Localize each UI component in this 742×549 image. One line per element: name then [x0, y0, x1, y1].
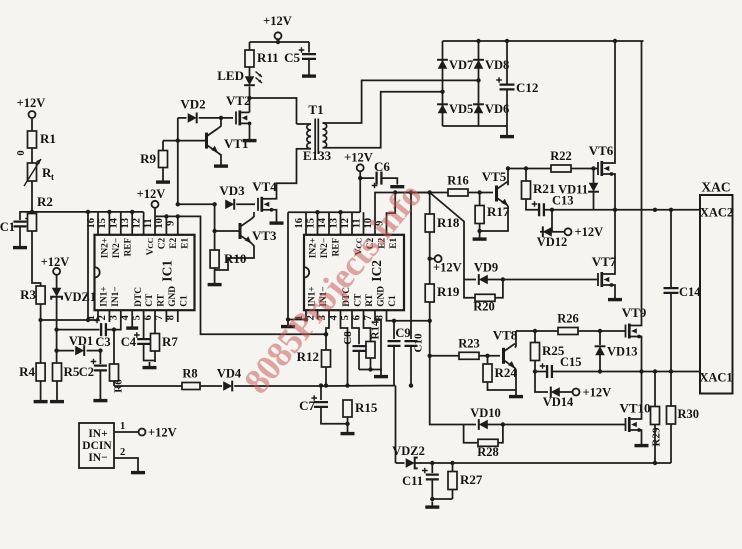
node: [428, 319, 432, 323]
wire R8 bus: [114, 385, 182, 387]
wire pin stub: [154, 216, 156, 234]
op-amp IC U1 (IC1 TL494): [86, 217, 195, 320]
svg-text:R5: R5: [64, 364, 80, 379]
wire: [249, 42, 251, 50]
wire C6 branch: [360, 177, 374, 179]
wire diode VD1 branch: [57, 350, 74, 352]
svg-text:E1: E1: [180, 238, 190, 249]
wire: [415, 462, 671, 464]
wire C12 column: [506, 41, 508, 85]
diode VD3: [219, 183, 245, 210]
pin 2: [120, 447, 125, 458]
wire: [430, 232, 464, 425]
wire: [432, 479, 452, 499]
wire VT6 source: [612, 174, 616, 210]
wire: [56, 275, 58, 288]
wire: [31, 181, 33, 212]
resistor R14: [366, 320, 382, 358]
svg-text:1: 1: [120, 421, 125, 432]
svg-text:R4: R4: [19, 364, 35, 379]
wire R23 line: [430, 355, 459, 357]
wire IC2 pin7 col: [375, 310, 381, 371]
capacitor C14: [664, 210, 702, 372]
wire VD12 branch: [540, 210, 552, 232]
wire pin stub: [317, 212, 319, 235]
svg-text:C15: C15: [560, 355, 582, 369]
node: [476, 78, 480, 82]
node: [477, 190, 481, 194]
ground: [34, 396, 48, 402]
diode VD5: [437, 102, 473, 116]
LED: [217, 68, 262, 85]
svg-text:R16: R16: [447, 174, 469, 188]
wire IC2 left side: [287, 212, 289, 321]
ground: [281, 321, 295, 327]
wire: [551, 231, 564, 233]
resistor R25: [531, 331, 565, 361]
svg-text:C14: C14: [679, 285, 701, 299]
wire pin stub: [351, 212, 353, 235]
wire: [559, 391, 572, 393]
svg-text:LED: LED: [217, 68, 244, 83]
wire: [506, 89, 508, 131]
ground: [500, 131, 514, 137]
wire to T1: [250, 98, 297, 124]
svg-text:R2: R2: [37, 194, 53, 209]
wire: [56, 381, 58, 396]
wire: [236, 203, 255, 205]
svg-text:C1: C1: [0, 220, 15, 234]
capacitor C3: [94, 318, 110, 349]
watermark: [236, 176, 429, 402]
svg-text:C6: C6: [374, 159, 390, 174]
svg-text:+12V: +12V: [148, 426, 177, 440]
wire VT1 base: [163, 140, 205, 142]
wire: [234, 385, 395, 387]
svg-text:R10: R10: [224, 251, 246, 266]
wire VT8 emitter: [515, 368, 516, 391]
resistor R23: [458, 337, 480, 360]
wire R28 loop: [464, 425, 478, 443]
svg-text:VT6: VT6: [589, 143, 614, 158]
svg-text:RT: RT: [365, 293, 375, 306]
node: [176, 138, 180, 142]
transistor VT10 (MOSFET): [619, 401, 650, 433]
wire XAC2 line: [544, 209, 700, 211]
wire VD14 branch: [535, 372, 548, 393]
power +12V terminal (VD12): [565, 225, 604, 239]
ground: [126, 323, 138, 329]
op-amp IC U2 (IC2 TL494): [294, 217, 404, 320]
wire: [479, 355, 500, 357]
capacitor C9: [388, 326, 411, 346]
wire XAC1 line: [552, 371, 700, 373]
wire pin stub: [317, 310, 319, 319]
ground: [156, 177, 170, 183]
wire T1 left bottom: [297, 148, 309, 150]
node: [324, 383, 328, 387]
svg-text:6: 6: [351, 315, 362, 320]
node: [38, 318, 42, 322]
wire VT3 emitter: [215, 243, 254, 270]
wire pin6 R7: [154, 310, 156, 333]
wire pin1 bus: [41, 310, 98, 320]
wire: [410, 346, 412, 386]
transistor VT8: [493, 328, 518, 369]
svg-text:C5: C5: [284, 50, 300, 65]
svg-text:VDZ1: VDZ1: [64, 290, 97, 304]
ground: [635, 440, 649, 446]
transistor VT3: [240, 219, 277, 243]
wire IC2 E1 riser: [387, 193, 396, 235]
wire: [162, 168, 164, 177]
ground: [13, 242, 27, 248]
node: [86, 210, 90, 214]
diode VD2: [180, 97, 205, 124]
wire +12V rail top: [250, 41, 310, 43]
resistor R29: [651, 372, 663, 447]
wire R20 loop: [464, 280, 475, 298]
svg-text:VT10: VT10: [619, 401, 650, 416]
wire R21 hang: [525, 169, 527, 182]
node: [86, 318, 90, 322]
wire: [178, 117, 187, 119]
wire IC2 E2 riser: [375, 193, 430, 235]
svg-text:C13: C13: [552, 194, 574, 208]
svg-text:+12V: +12V: [575, 225, 604, 239]
wire pin stub: [177, 310, 179, 322]
wire: [578, 330, 626, 332]
wire pin stub: [363, 212, 365, 235]
power +12V terminal (top-left): [17, 96, 46, 118]
svg-text:+12V: +12V: [263, 14, 292, 28]
wire VT7 drain: [612, 210, 616, 274]
wire: [20, 212, 32, 220]
wire IC1 left side: [87, 212, 89, 320]
node: [613, 208, 617, 212]
wire pin4 ground: [131, 310, 133, 322]
node: [276, 40, 280, 44]
wire T1 secondary A: [326, 80, 479, 123]
resistor R18: [425, 193, 460, 233]
node: [98, 348, 102, 352]
diode VD7: [437, 58, 473, 72]
node: [392, 319, 396, 323]
wire VT2 drain: [249, 98, 251, 112]
capacitor C1: [0, 216, 31, 234]
svg-text:R28: R28: [477, 445, 499, 459]
resistor R6: [110, 364, 125, 393]
resistor R16: [447, 174, 469, 197]
node: [476, 39, 480, 43]
wire pin5 C4: [143, 310, 145, 338]
wire IC2 pin4 col: [341, 310, 348, 385]
wire: [40, 304, 42, 363]
svg-text:VT5: VT5: [482, 169, 507, 184]
svg-text:R19: R19: [437, 284, 460, 299]
wire VT9 drain: [639, 41, 642, 326]
wire pin stub: [165, 216, 167, 234]
wire R26 line: [516, 330, 558, 332]
wire pin stub: [340, 212, 342, 235]
wire: [99, 370, 101, 395]
wire: [308, 59, 310, 71]
svg-text:VD2: VD2: [180, 97, 205, 112]
wire: [488, 382, 517, 390]
node: [653, 369, 657, 373]
svg-text:16: 16: [294, 218, 305, 229]
resistor R20: [473, 294, 495, 313]
node: [669, 208, 673, 212]
wire: [359, 370, 381, 372]
svg-text:R3: R3: [20, 287, 36, 302]
resistor R12: [297, 349, 331, 367]
ground: [473, 234, 487, 240]
ground: [390, 185, 404, 188]
wire IC2 pin8 col: [387, 310, 430, 321]
node: [501, 277, 505, 281]
node: [533, 329, 537, 333]
thermistor Rt: [16, 150, 54, 186]
node: [247, 96, 251, 100]
node: [176, 202, 180, 206]
node: [54, 348, 58, 352]
wire: [308, 42, 310, 53]
node: [286, 317, 290, 321]
diode VD14: [543, 387, 574, 409]
svg-text:C2: C2: [158, 237, 168, 249]
node: [319, 383, 323, 387]
node: [506, 166, 510, 170]
wire: [479, 224, 481, 234]
wire R6 column: [113, 330, 115, 364]
zener diode VDZ1: [51, 288, 96, 304]
svg-text:VD8: VD8: [485, 58, 509, 72]
svg-text:R27: R27: [460, 472, 483, 487]
wire to R16: [395, 192, 448, 194]
svg-text:CT: CT: [354, 293, 364, 307]
node: [450, 461, 454, 465]
svg-text:C11: C11: [402, 474, 423, 488]
svg-text:R26: R26: [557, 312, 579, 326]
svg-text:VD5: VD5: [449, 102, 473, 116]
transistor VT9 (MOSFET): [622, 305, 647, 339]
svg-text:VT8: VT8: [493, 328, 518, 343]
svg-text:+12V: +12V: [583, 386, 612, 400]
wire: [654, 425, 656, 464]
resistor R19: [425, 284, 460, 302]
node: [164, 214, 168, 218]
wire VT1 collector: [218, 118, 221, 128]
svg-text:VD13: VD13: [607, 345, 638, 359]
svg-text:VDZ2: VDZ2: [392, 444, 425, 458]
wire IC2 top bus: [288, 211, 360, 213]
node: [324, 332, 328, 336]
node: [130, 210, 134, 214]
svg-text:+12V: +12V: [41, 255, 70, 269]
svg-text:0: 0: [16, 150, 27, 155]
diode VD13: [595, 331, 638, 372]
wire pin stub: [97, 212, 99, 235]
svg-text:VCC: VCC: [146, 238, 156, 256]
wire bottom rail: [396, 462, 405, 464]
wire: [498, 425, 503, 443]
wire VT10 source: [639, 430, 642, 440]
connector DCIN box: [79, 423, 114, 468]
pin 1: [120, 421, 125, 432]
transistor VT4 (MOSFET): [252, 179, 277, 212]
wire pin stub: [143, 212, 145, 235]
power +12V terminal (VDZ1): [41, 255, 70, 275]
node: [501, 422, 505, 426]
svg-text:VD12: VD12: [537, 235, 568, 249]
svg-text:XAC1: XAC1: [699, 371, 732, 385]
node: [409, 383, 413, 387]
svg-text:C12: C12: [516, 80, 538, 95]
svg-text:VT3: VT3: [252, 228, 277, 243]
wire IC2 pin6 R14: [364, 310, 371, 341]
svg-text:R22: R22: [550, 149, 572, 163]
node: [653, 208, 657, 212]
svg-text:VD1: VD1: [69, 334, 93, 348]
node: [338, 210, 342, 214]
resistor R28: [477, 439, 499, 459]
resistor R11: [245, 50, 279, 67]
wire: [19, 226, 21, 242]
wire: [99, 351, 101, 364]
ground: [143, 362, 157, 368]
svg-text:CT: CT: [145, 293, 155, 307]
node: [428, 354, 432, 358]
wire: [113, 381, 115, 386]
wire VT1 emitter: [218, 153, 221, 161]
resistor R3: [20, 286, 45, 304]
svg-text:R15: R15: [355, 400, 378, 415]
svg-text:IN−: IN−: [88, 452, 107, 464]
ground: [608, 294, 622, 300]
svg-text:R11: R11: [257, 50, 279, 65]
wire IC2 pins 1-2: [288, 310, 306, 319]
svg-text:4: 4: [120, 314, 131, 320]
wire: [114, 431, 139, 433]
svg-text:IN+: IN+: [88, 428, 107, 440]
diode VD4: [217, 367, 242, 392]
connector XAC: [699, 180, 733, 394]
ground: [243, 135, 257, 141]
svg-text:REF: REF: [123, 238, 133, 257]
capacitor C2: [79, 359, 107, 379]
ground: [214, 161, 228, 167]
transformer T1: [303, 102, 332, 163]
svg-text:VT4: VT4: [252, 179, 277, 194]
resistor R22: [550, 149, 572, 172]
node: [653, 461, 657, 465]
svg-text:T1: T1: [308, 102, 323, 117]
svg-text:C3: C3: [95, 335, 110, 349]
wire pin stub: [177, 216, 179, 234]
wire pin stub: [131, 212, 133, 235]
svg-text:E133: E133: [303, 148, 332, 163]
node: [345, 422, 349, 426]
node: [440, 90, 444, 94]
svg-text:IN2+: IN2+: [309, 238, 319, 258]
resistor R10: [210, 231, 246, 268]
wire VDZ1 to C3: [57, 329, 100, 331]
svg-text:t: t: [51, 172, 54, 182]
transistor VT5: [482, 169, 508, 206]
node: [54, 327, 58, 331]
resistor R1: [28, 131, 56, 148]
resistor R5: [53, 363, 80, 381]
wire: [452, 490, 454, 500]
wire IC2 pin5 C8: [352, 310, 359, 344]
wire pin stub: [328, 212, 330, 235]
wire: [487, 279, 598, 281]
resistor R17: [475, 193, 510, 224]
resistor R27: [448, 463, 483, 490]
svg-text:GND: GND: [377, 286, 387, 307]
wire: [571, 168, 598, 170]
node: [212, 229, 216, 233]
wire pin stub: [165, 310, 167, 322]
wire: [670, 424, 672, 463]
node: [505, 39, 509, 43]
resistor R2: [28, 194, 53, 231]
node: [324, 332, 328, 336]
wire: [526, 199, 539, 210]
capacitor C15: [540, 355, 582, 378]
power +12V terminal (DCIN): [139, 426, 177, 440]
node: [107, 210, 111, 214]
node: [315, 210, 319, 214]
transistor VT6 (MOSFET): [589, 143, 614, 176]
capacitor C10: [405, 333, 425, 352]
ground: [208, 279, 222, 285]
wire VT8 collector: [515, 331, 516, 348]
svg-text:+12V: +12V: [344, 151, 373, 165]
svg-text:VD6: VD6: [485, 102, 509, 116]
wire: [214, 268, 216, 279]
svg-text:VT7: VT7: [592, 254, 617, 269]
diode VD11: [558, 169, 599, 210]
svg-text:C2: C2: [79, 365, 94, 379]
wire bridge right column: [478, 41, 480, 126]
node: [598, 329, 602, 333]
svg-text:R20: R20: [473, 300, 495, 314]
node: [212, 202, 216, 206]
resistor R26: [557, 312, 579, 335]
power +12V terminal (IC1): [137, 187, 166, 208]
wire C11 hang: [431, 463, 433, 473]
svg-text:R18: R18: [437, 215, 460, 230]
svg-text:+12V: +12V: [137, 187, 166, 201]
wire VT6 drain: [612, 41, 616, 163]
node: [428, 257, 432, 261]
wire C9 column: [393, 321, 395, 339]
wire T1 left top: [297, 123, 309, 125]
capacitor C12: [496, 77, 538, 95]
resistor R15: [343, 400, 378, 417]
svg-text:XAC2: XAC2: [700, 206, 733, 220]
svg-text:VD3: VD3: [219, 183, 245, 198]
wire: [144, 344, 155, 361]
svg-text:C9: C9: [395, 326, 410, 340]
node: [550, 208, 554, 212]
wire: [358, 351, 360, 370]
node: [345, 383, 349, 387]
wire bridge bottom: [443, 125, 508, 127]
wire: [321, 407, 348, 424]
